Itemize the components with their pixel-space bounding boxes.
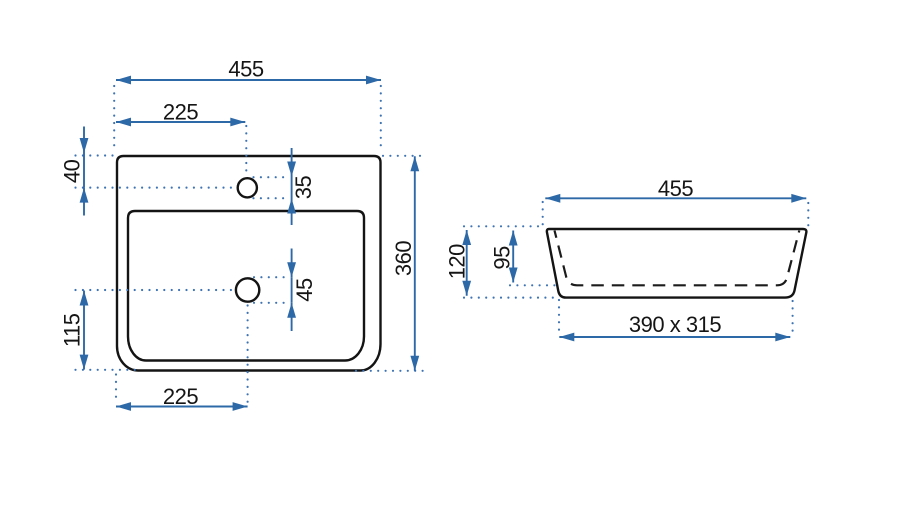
extension line: drain bottom tangent (horizontal dotted) (254, 302, 291, 304)
side view: inner basin profile (dashed) (555, 231, 800, 286)
extension line: drain centre left (horizontal dotted) (76, 289, 236, 291)
dimension 35 faucet hole diameter (287, 148, 316, 225)
svg-text:225: 225 (163, 384, 198, 409)
top view: inner basin rim (128, 211, 364, 361)
dimension 95 side view basin depth (490, 231, 518, 283)
dimension 225 drain offset bottom (116, 384, 248, 411)
extension line: drain centre below (vertical dotted) (247, 306, 249, 404)
svg-text:455: 455 (228, 57, 263, 82)
extension line: faucet bottom tangent (horizontal dotted) (254, 197, 291, 199)
dimension 115 drain offset from bottom edge (60, 291, 89, 370)
extension line: top edge left (horizontal dotted) (76, 154, 115, 156)
faucet hole (238, 178, 257, 197)
extension line: faucet top tangent (horizontal dotted) (254, 176, 291, 178)
extension line: side bottom-right (vertical dotted) (791, 301, 793, 334)
dimension 455 side view width (545, 176, 806, 203)
extension line: left edge bottom (vertical dotted) (115, 375, 117, 404)
dimension 40 faucet offset from top edge (60, 127, 89, 216)
extension line: right edge top (vertical dotted) (380, 86, 382, 153)
svg-text:360: 360 (391, 241, 416, 276)
dimension 225 faucet offset top (116, 100, 245, 127)
svg-text:115: 115 (60, 313, 85, 347)
svg-text:390 x 315: 390 x 315 (629, 312, 721, 337)
extension line: top edge right (horizontal dotted) (383, 155, 424, 157)
svg-text:120: 120 (445, 244, 470, 279)
extension line: side top edge left (horizontal dotted) (464, 225, 541, 227)
dimension 390 x 315 bottom footprint (559, 312, 790, 341)
drain hole (236, 278, 259, 301)
extension line: side inner depth (horizontal dotted) (510, 284, 560, 286)
svg-text:40: 40 (60, 159, 85, 183)
dimension 455 top view width (116, 57, 381, 85)
extension line: left edge top (vertical dotted) (113, 86, 115, 153)
svg-text:95: 95 (490, 246, 515, 270)
dimension 120 side view total height (445, 230, 472, 296)
svg-text:45: 45 (292, 278, 317, 302)
extension line: faucet centre above (vertical dotted) (245, 126, 247, 176)
svg-text:35: 35 (291, 176, 316, 200)
extension line: side top-left (vertical dotted) (542, 202, 544, 226)
extension line: drain top tangent (horizontal dotted) (254, 276, 291, 278)
dimension 360 top view depth (391, 156, 419, 370)
extension line: bottom edge right (horizontal dotted) (356, 370, 424, 372)
side view: outer profile (547, 229, 807, 298)
svg-text:225: 225 (163, 100, 198, 125)
top view: outer basin outline (117, 156, 381, 371)
extension line: side bottom-left (vertical dotted) (558, 300, 560, 334)
extension line: side bottom edge (horizontal dotted) (464, 297, 560, 299)
dimension 45 drain hole diameter (287, 249, 317, 332)
extension line: faucet centre left (horizontal dotted) (76, 187, 237, 189)
extension line: side top-right (vertical dotted) (807, 203, 809, 226)
svg-text:455: 455 (658, 176, 693, 201)
extension line: bottom edge left (horizontal dotted) (76, 369, 138, 371)
